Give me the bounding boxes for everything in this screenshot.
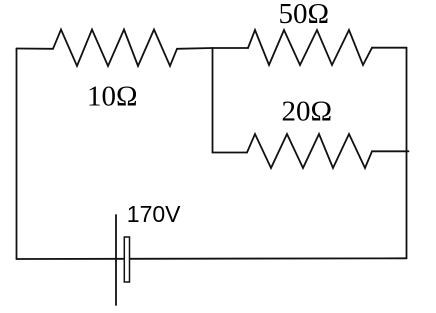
svg-text:20Ω: 20Ω xyxy=(282,96,333,128)
wire bottom xyxy=(17,257,407,260)
wire left vertical xyxy=(16,49,18,260)
battery V1 short plate xyxy=(124,237,129,282)
node A junction vertical wire xyxy=(212,48,214,153)
battery V1 long plate xyxy=(115,215,117,305)
resistor R2 50ohm zigzag xyxy=(248,30,372,65)
wire from R1 to node A xyxy=(177,47,213,50)
wire from R2 to top-right corner xyxy=(372,47,407,49)
svg-text:170V: 170V xyxy=(127,201,181,227)
wire from node A branch to R3 xyxy=(213,152,248,154)
svg-text:50Ω: 50Ω xyxy=(279,0,330,30)
wire right vertical xyxy=(406,48,408,259)
resistor R1 10ohm zigzag xyxy=(53,30,177,67)
wire top-left segment xyxy=(17,48,54,50)
wire from R3 to right vertical xyxy=(372,150,409,152)
svg-text:10Ω: 10Ω xyxy=(87,81,138,113)
wire from node A to R2 xyxy=(213,47,249,49)
resistor R3 20ohm zigzag xyxy=(247,134,372,168)
